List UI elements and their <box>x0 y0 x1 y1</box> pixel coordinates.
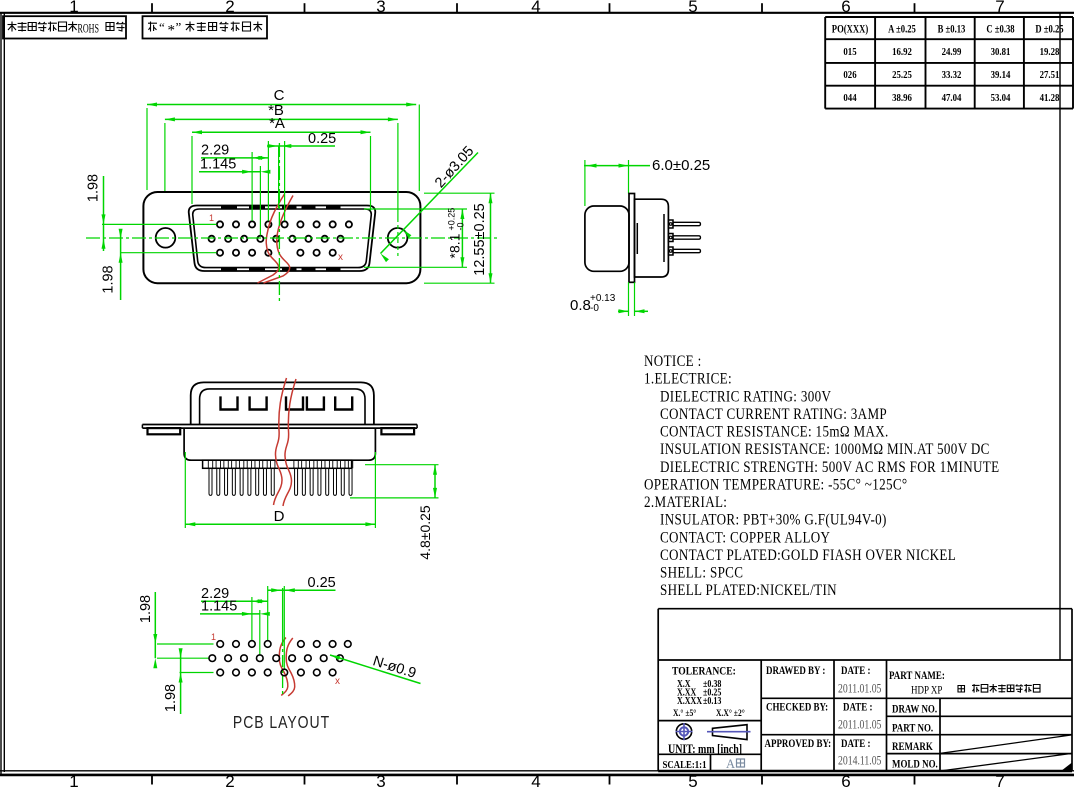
svg-text:1.98: 1.98 <box>86 174 102 202</box>
svg-text:015: 015 <box>843 46 856 58</box>
svg-text:PO(XXX): PO(XXX) <box>832 23 869 36</box>
svg-text:2011.01.05: 2011.01.05 <box>838 718 882 731</box>
svg-text:1.145: 1.145 <box>201 599 237 615</box>
svg-text:SHELL: SPCC: SHELL: SPCC <box>660 565 743 582</box>
svg-text:25.25: 25.25 <box>892 69 912 81</box>
svg-text:7: 7 <box>995 0 1004 16</box>
svg-text:1.ELECTRICE:: 1.ELECTRICE: <box>644 371 732 388</box>
svg-text:N-ø0.9: N-ø0.9 <box>371 653 418 682</box>
svg-text:4: 4 <box>531 0 540 16</box>
svg-text:REMARK: REMARK <box>892 741 933 753</box>
svg-text:PART NO.: PART NO. <box>892 723 934 735</box>
svg-text:026: 026 <box>843 69 856 81</box>
svg-text:2011.01.05: 2011.01.05 <box>838 682 882 695</box>
svg-text:5: 5 <box>688 772 697 787</box>
svg-text:2-ø3.05: 2-ø3.05 <box>432 143 477 191</box>
svg-text:*: * <box>168 23 176 39</box>
svg-text:“: “ <box>159 20 165 35</box>
svg-text:6: 6 <box>841 772 850 787</box>
svg-text:x: x <box>335 676 340 687</box>
svg-text:ROHS: ROHS <box>78 22 99 36</box>
svg-text:4: 4 <box>531 772 540 787</box>
svg-text:INSULATION RESISTANCE: 1000MΩ: INSULATION RESISTANCE: 1000MΩ MIN.AT 500… <box>660 441 990 458</box>
svg-text:6: 6 <box>841 0 850 16</box>
svg-text:DRAWED BY :: DRAWED BY : <box>766 665 825 677</box>
svg-text:6.0±0.25: 6.0±0.25 <box>652 157 710 174</box>
svg-text:C ±0.38: C ±0.38 <box>986 23 1014 36</box>
svg-text:27.51: 27.51 <box>1040 69 1060 81</box>
svg-text:CONTACT PLATED:GOLD FIASH OVER: CONTACT PLATED:GOLD FIASH OVER NICKEL <box>660 547 956 564</box>
svg-text:HDP XP: HDP XP <box>911 684 942 696</box>
svg-text:A: A <box>726 757 735 771</box>
svg-text:DIELECTRIC STRENGTH: 500V AC R: DIELECTRIC STRENGTH: 500V AC RMS FOR 1MI… <box>660 459 999 476</box>
svg-text:”: ” <box>176 20 182 35</box>
svg-text:1.98: 1.98 <box>100 265 116 293</box>
svg-text:*8.1: *8.1 <box>447 233 463 258</box>
svg-text:1.98: 1.98 <box>138 595 154 623</box>
svg-text:CONTACT CURRENT RATING: 3AMP: CONTACT CURRENT RATING: 3AMP <box>660 406 887 423</box>
svg-text:DATE :: DATE : <box>841 665 870 677</box>
svg-text:MOLD NO.: MOLD NO. <box>892 759 938 771</box>
svg-text:3: 3 <box>376 772 385 787</box>
svg-text:1.98: 1.98 <box>163 684 179 712</box>
svg-text:-0: -0 <box>456 222 466 230</box>
svg-text:0.8: 0.8 <box>570 297 591 314</box>
svg-text:INSULATOR: PBT+30% G.F(UL94V-0: INSULATOR: PBT+30% G.F(UL94V-0) <box>660 512 887 529</box>
svg-text:2014.11.05: 2014.11.05 <box>838 754 882 767</box>
svg-text:D: D <box>274 508 285 525</box>
svg-text:*A: *A <box>269 115 285 132</box>
svg-text:39.14: 39.14 <box>991 69 1011 81</box>
svg-text:PCB LAYOUT: PCB LAYOUT <box>233 712 330 732</box>
svg-text:1.145: 1.145 <box>200 156 236 172</box>
svg-text:DRAW NO.: DRAW NO. <box>892 704 937 716</box>
svg-text:SCALE:1:1: SCALE:1:1 <box>663 759 707 771</box>
svg-text:x: x <box>338 252 343 263</box>
svg-text:PART NAME:: PART NAME: <box>889 670 945 682</box>
svg-text:DIELECTRIC RATING: 300V: DIELECTRIC RATING: 300V <box>660 388 831 405</box>
svg-text:53.04: 53.04 <box>991 92 1011 104</box>
svg-text:APPROVED BY:: APPROVED BY: <box>765 738 832 750</box>
svg-text:OPERATION TEMPERATURE: -55C° ~: OPERATION TEMPERATURE: -55C° ~125C° <box>644 476 907 493</box>
svg-text:NOTICE :: NOTICE : <box>644 353 702 370</box>
svg-text:33.32: 33.32 <box>942 69 962 81</box>
svg-text:3: 3 <box>376 0 385 16</box>
svg-text:±0.13: ±0.13 <box>703 695 722 706</box>
svg-text:38.96: 38.96 <box>892 92 912 104</box>
svg-text:1: 1 <box>69 0 78 16</box>
svg-text:1: 1 <box>211 632 216 642</box>
svg-text:24.99: 24.99 <box>942 46 962 58</box>
svg-text:16.92: 16.92 <box>892 46 912 58</box>
svg-text:DATE :: DATE : <box>841 738 870 750</box>
svg-text:B ±0.13: B ±0.13 <box>938 23 966 36</box>
svg-text:0.25: 0.25 <box>308 131 336 147</box>
svg-text:UNIT: mm [inch]: UNIT: mm [inch] <box>668 743 742 756</box>
svg-text:X.° ±5°: X.° ±5° <box>673 707 697 718</box>
svg-text:DATE :: DATE : <box>843 702 872 714</box>
svg-text:2.MATERIAL:: 2.MATERIAL: <box>644 494 727 511</box>
svg-text:12.55±0.25: 12.55±0.25 <box>472 203 488 275</box>
svg-text:30.81: 30.81 <box>991 46 1011 58</box>
svg-text:SHELL PLATED:NICKEL/TIN: SHELL PLATED:NICKEL/TIN <box>660 582 837 599</box>
svg-text:2: 2 <box>225 772 234 787</box>
svg-text:19.28: 19.28 <box>1040 46 1060 58</box>
svg-text:4.8±0.25: 4.8±0.25 <box>417 505 433 560</box>
svg-text:1: 1 <box>69 772 78 787</box>
svg-text:044: 044 <box>843 92 856 104</box>
svg-text:-0: -0 <box>590 303 599 314</box>
svg-text:2: 2 <box>225 0 234 16</box>
svg-text:TOLERANCE:: TOLERANCE: <box>672 665 736 678</box>
svg-text:CHECKED BY:: CHECKED BY: <box>766 702 828 714</box>
svg-text:47.04: 47.04 <box>942 92 962 104</box>
svg-text:CONTACT: COPPER ALLOY: CONTACT: COPPER ALLOY <box>660 529 830 546</box>
svg-text:0.25: 0.25 <box>308 575 336 591</box>
svg-text:7: 7 <box>995 772 1004 787</box>
svg-text:5: 5 <box>688 0 697 16</box>
svg-text:X.X° ±2°: X.X° ±2° <box>716 707 745 718</box>
svg-text:D ±0.25: D ±0.25 <box>1035 23 1063 36</box>
svg-text:41.28: 41.28 <box>1040 92 1060 104</box>
svg-text:X.XXX: X.XXX <box>677 695 702 706</box>
svg-text:A ±0.25: A ±0.25 <box>888 23 916 36</box>
svg-text:CONTACT RESISTANCE: 15mΩ MAX.: CONTACT RESISTANCE: 15mΩ MAX. <box>660 424 889 441</box>
svg-text:1: 1 <box>209 213 214 223</box>
